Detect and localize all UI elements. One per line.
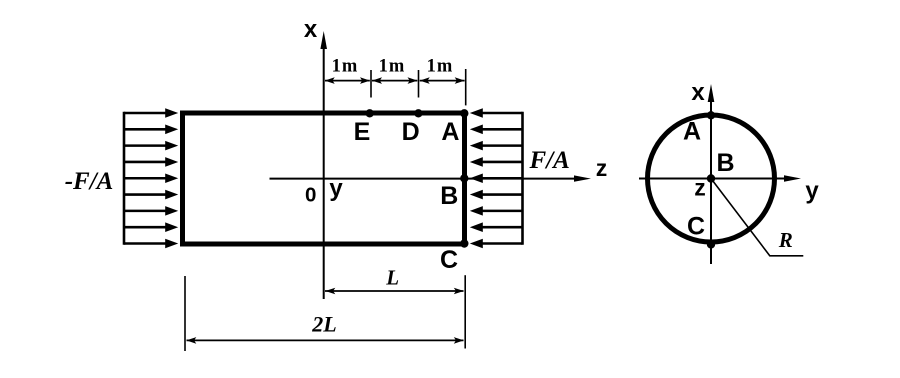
svg-text:L: L bbox=[385, 266, 399, 290]
point C bbox=[460, 239, 468, 247]
svg-text:-F/A: -F/A bbox=[65, 168, 114, 195]
svg-text:0: 0 bbox=[305, 183, 316, 206]
svg-text:E: E bbox=[354, 118, 371, 146]
svg-text:F/A: F/A bbox=[529, 147, 570, 174]
svg-text:1m: 1m bbox=[379, 57, 406, 77]
1m dimension arrows bbox=[325, 77, 465, 84]
point A bbox=[460, 109, 468, 117]
2L dimension extension line left bbox=[184, 276, 186, 351]
L dimension extension line right bbox=[464, 275, 466, 348]
point B (section) bbox=[707, 174, 715, 182]
left distributed load -F/A bbox=[124, 108, 178, 248]
svg-text:y: y bbox=[329, 175, 343, 202]
point A (section) bbox=[707, 111, 715, 119]
point E bbox=[366, 109, 374, 117]
point D bbox=[414, 109, 422, 117]
svg-text:y: y bbox=[805, 178, 819, 205]
svg-text:A: A bbox=[441, 118, 459, 146]
svg-text:1m: 1m bbox=[427, 57, 454, 77]
1m dimension ticks bbox=[371, 69, 466, 105]
svg-text:C: C bbox=[687, 213, 705, 241]
R leader line bbox=[711, 179, 803, 256]
svg-text:x: x bbox=[691, 79, 705, 106]
cross-section circle bbox=[648, 115, 775, 242]
right distributed load F/A bbox=[470, 108, 523, 248]
point C (section) bbox=[707, 240, 715, 248]
svg-text:D: D bbox=[402, 118, 420, 146]
svg-text:B: B bbox=[716, 149, 734, 177]
z axis (left figure) bbox=[270, 175, 592, 181]
svg-text:x: x bbox=[304, 16, 318, 43]
bar outline bbox=[183, 113, 465, 244]
svg-text:2L: 2L bbox=[311, 311, 336, 336]
svg-text:B: B bbox=[440, 182, 458, 210]
x axis (section) bbox=[708, 84, 715, 264]
svg-text:z: z bbox=[596, 155, 608, 181]
x axis (left figure) bbox=[320, 31, 327, 299]
svg-text:1m: 1m bbox=[332, 57, 359, 77]
2L dimension bbox=[186, 337, 464, 344]
y axis (section) bbox=[639, 175, 801, 181]
svg-text:z: z bbox=[694, 175, 706, 201]
svg-text:C: C bbox=[440, 246, 458, 274]
svg-text:A: A bbox=[683, 118, 701, 146]
svg-text:R: R bbox=[778, 228, 793, 252]
point B bbox=[460, 174, 468, 182]
L dimension bbox=[325, 288, 464, 295]
